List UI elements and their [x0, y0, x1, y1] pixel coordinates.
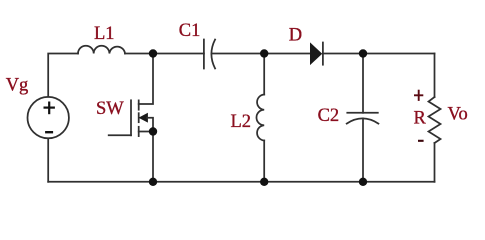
- diode D: [311, 43, 323, 65]
- node A (L1/SW/C1 junction): [149, 49, 157, 57]
- label + output polarity: [414, 90, 423, 101]
- node C (D/C2/R junction): [359, 49, 367, 57]
- drain lead: [139, 54, 153, 105]
- svg-text:Vg: Vg: [6, 75, 29, 95]
- inductor L2: [256, 54, 264, 182]
- gate lead: [109, 134, 131, 136]
- wire top rail from L1 to C1: [125, 53, 204, 55]
- svg-text:D: D: [289, 25, 302, 45]
- node bottom rail under L2: [260, 178, 268, 186]
- node bottom rail under C2: [359, 178, 367, 186]
- node bottom rail under SW: [149, 178, 157, 186]
- channel segment middle: [138, 113, 140, 122]
- svg-text:R: R: [414, 108, 427, 128]
- channel segment top: [138, 100, 140, 109]
- body arrow: [140, 114, 148, 122]
- channel segment bottom: [138, 127, 140, 136]
- inductor L1: [78, 46, 125, 54]
- svg-text:Vo: Vo: [448, 105, 468, 125]
- svg-text:C2: C2: [318, 106, 340, 126]
- wire top rail left segment: [48, 54, 78, 97]
- capacitor C1: [204, 40, 215, 69]
- source lead: [139, 131, 153, 133]
- wire top rail from C1 to diode: [212, 53, 311, 55]
- wire top rail from diode to right corner: [323, 53, 435, 55]
- capacitor C2: [347, 54, 379, 182]
- voltage source Vg: [28, 97, 69, 138]
- svg-text:SW: SW: [96, 99, 124, 119]
- label - output polarity: [418, 140, 424, 142]
- gate bar: [130, 100, 132, 135]
- node B (C1/L2/D junction): [260, 49, 268, 57]
- resistor R: [429, 54, 441, 182]
- svg-text:L2: L2: [231, 112, 252, 132]
- wire bottom rail: [48, 181, 434, 183]
- wire left bottom: [47, 138, 49, 181]
- svg-text:L1: L1: [94, 24, 115, 44]
- node SW source junction: [149, 127, 157, 135]
- svg-text:C1: C1: [179, 21, 201, 41]
- transistor SW (MOSFET): [109, 54, 153, 182]
